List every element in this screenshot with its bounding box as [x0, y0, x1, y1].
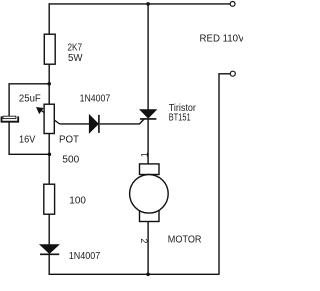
potentiometer POT body — [44, 104, 54, 133]
wire: D1 gate wire to thyristor — [100, 119, 145, 124]
wire: POT bottom to resistor R2 — [48, 134, 50, 185]
svg-text:500: 500 — [62, 154, 79, 165]
svg-text:1: 1 — [140, 152, 150, 157]
svg-text:100: 100 — [69, 195, 86, 206]
svg-text:25uF: 25uF — [19, 94, 41, 105]
capacitor C1 bottom plate bracket — [2, 116, 19, 121]
motor M1 body circle — [130, 175, 169, 214]
svg-text:RED 110V: RED 110V — [200, 33, 244, 44]
wire: capacitor bottom down and right to node B — [9, 122, 49, 155]
diode D2 1N4007 — [40, 245, 59, 254]
motor M1 top brush — [140, 164, 160, 175]
wire: thyristor branch vertical from top rail — [147, 4, 149, 110]
terminal circle right — [230, 71, 235, 76]
svg-text:BT151: BT151 — [169, 113, 191, 124]
svg-text:16V: 16V — [19, 134, 36, 145]
motor M1 bottom brush — [140, 210, 160, 222]
wire: left column vertical down to resistor R1 — [48, 3, 50, 34]
node A junction dot — [47, 82, 51, 86]
capacitor C1 top plate — [3, 116, 16, 118]
wire: thyristor to motor — [147, 120, 149, 164]
node B junction dot — [48, 153, 52, 157]
resistor R2 100 — [44, 184, 55, 214]
potentiometer wiper arrow — [39, 109, 60, 124]
wire: right column from terminal 2 down to bottom rail — [219, 74, 230, 275]
wire: R1 bottom through node A to POT — [48, 64, 50, 104]
wire: top horizontal rail — [49, 3, 230, 5]
thyristor cathode bar — [140, 118, 156, 120]
resistor R1 2K7 — [44, 34, 55, 64]
wire: D2 to bottom rail — [49, 254, 219, 274]
wire: motor bottom to bottom rail — [147, 222, 149, 275]
svg-text:5W: 5W — [68, 53, 83, 64]
wire: R2 bottom to diode D2 — [48, 214, 50, 245]
wire: node A left to capacitor branch — [9, 84, 49, 117]
svg-text:1N4007: 1N4007 — [69, 251, 101, 262]
thyristor U1 BT151 triangle — [140, 110, 156, 118]
wire: wiper to diode D1 — [60, 123, 90, 125]
svg-text:2: 2 — [139, 238, 149, 243]
svg-text:MOTOR: MOTOR — [168, 235, 202, 246]
junction dot top rail / thyristor — [146, 2, 150, 6]
svg-text:POT: POT — [59, 134, 79, 145]
diode D1 1N4007 — [89, 115, 98, 133]
svg-text:2K7: 2K7 — [68, 43, 83, 54]
junction dot bottom rail / motor — [146, 273, 150, 277]
svg-text:1N4007: 1N4007 — [80, 93, 111, 104]
terminal circle top right — [230, 2, 235, 7]
